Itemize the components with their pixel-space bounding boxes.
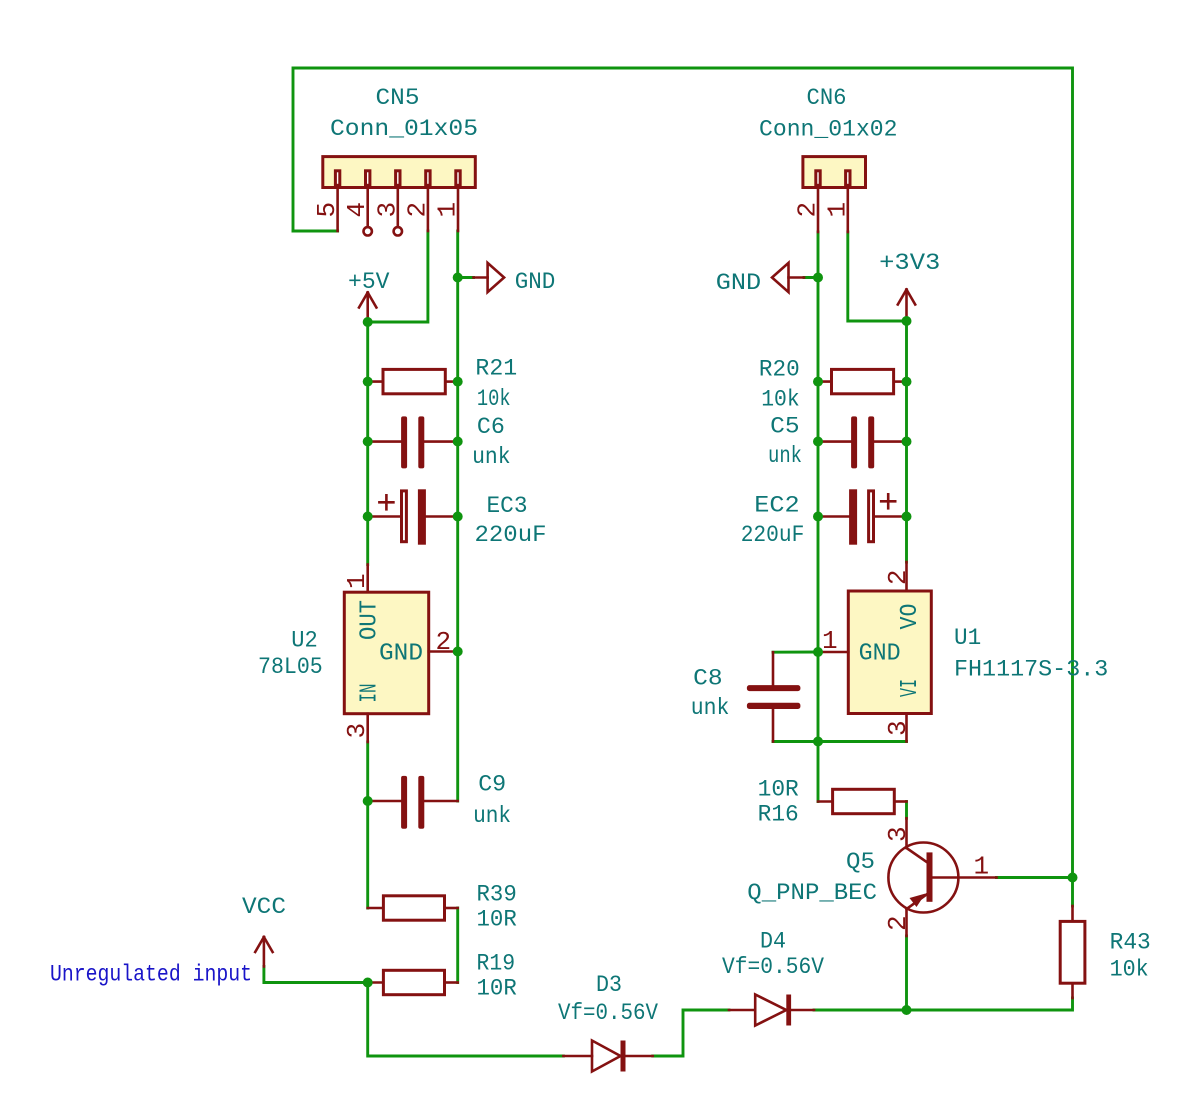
label R21 [475, 356, 517, 383]
pin name IN of U2 [357, 684, 384, 703]
label CN6 reference [807, 85, 847, 112]
svg-text:Conn_01x02: Conn_01x02 [759, 117, 898, 144]
pin 2 of U2 GND right [429, 650, 454, 653]
svg-text:10R: 10R [477, 976, 517, 1003]
power symbol GND left [474, 263, 505, 292]
junction R20 left [813, 377, 823, 387]
junction bottom D4 node [902, 1005, 912, 1015]
svg-text:Unregulated input: Unregulated input [50, 962, 252, 989]
label +3V3 [879, 250, 940, 277]
wire R43 top to Q5 base junction [1071, 878, 1074, 907]
label D3 [596, 972, 622, 999]
label CN5 value [330, 116, 478, 143]
power symbol +3V3 [898, 290, 915, 318]
pin number 3 of CN5 [372, 202, 402, 218]
pin number 1 of U1 [822, 626, 838, 656]
capacitor EC3 polarized [368, 489, 458, 544]
wire GND right stub [804, 276, 818, 279]
label GND left [515, 269, 556, 296]
label C5 [770, 414, 800, 441]
pin 1 of CN6 [846, 188, 849, 233]
pin name GND of U2 [379, 641, 423, 668]
svg-text:EC2: EC2 [754, 493, 799, 520]
svg-text:220uF: 220uF [741, 522, 805, 549]
pin number 2 of CN5 [402, 202, 432, 218]
junction GND right node [813, 273, 823, 283]
svg-text:+5V: +5V [348, 269, 390, 296]
label R20 value 10k [761, 387, 800, 414]
label EC3 value 220uF [475, 522, 547, 549]
wire D3 cathode up to D4 anode [653, 1010, 729, 1056]
pin name VI of U1 [897, 679, 924, 697]
label U2 value 78L05 [258, 654, 323, 681]
label U1 reference [954, 625, 981, 652]
junction C6 left [363, 437, 373, 447]
capacitor C8 [747, 652, 801, 741]
resistor R43 [1060, 906, 1085, 998]
pin 2 of CN5 [427, 188, 430, 232]
svg-text:R21: R21 [475, 356, 517, 383]
svg-text:220uF: 220uF [475, 522, 547, 549]
junction +5V node [363, 317, 373, 327]
pin 2 of CN6 [817, 188, 820, 233]
resistor R20 [818, 369, 907, 393]
wire +5V column [366, 322, 369, 565]
pin number 1 of CN5 [433, 202, 463, 218]
junction EC2 left [813, 512, 823, 522]
label Unregulated input [50, 962, 252, 989]
resistor R39 [368, 896, 458, 920]
junction EC3 left [363, 512, 373, 522]
pin number 2 of U2 [436, 627, 452, 657]
svg-text:10R: 10R [477, 907, 517, 934]
junction U1 pin1 [813, 647, 823, 657]
svg-text:GND: GND [379, 641, 423, 668]
pin number 3 of U1 [883, 720, 913, 736]
label D4 [760, 929, 786, 956]
svg-text:3: 3 [883, 826, 913, 842]
pin number 2 of Q5 [883, 915, 913, 931]
label +5V [348, 269, 390, 296]
svg-text:Vf=0.56V: Vf=0.56V [558, 1000, 658, 1027]
svg-text:Q_PNP_BEC: Q_PNP_BEC [747, 880, 877, 907]
pin number 1 of CN6 [822, 202, 852, 218]
junction C5 right [902, 437, 912, 447]
label R19 [477, 951, 516, 978]
wire unregulated input to R19 node [264, 967, 368, 983]
pin number 4 of CN5 [342, 202, 372, 218]
wire R19 node down and right to D3 [368, 983, 564, 1057]
pin 5 of CN5 [336, 188, 339, 232]
junction GND left node [453, 273, 463, 283]
label EC3 [487, 493, 528, 520]
svg-text:10k: 10k [1110, 957, 1149, 984]
svg-text:R19: R19 [477, 951, 516, 978]
regulator U2 body [344, 592, 428, 714]
pin name OUT of U2 [357, 600, 384, 640]
svg-text:VO: VO [897, 604, 924, 630]
svg-text:2: 2 [793, 202, 823, 218]
svg-text:VI: VI [897, 679, 924, 697]
svg-text:1: 1 [822, 626, 838, 656]
junction C5 left [813, 437, 823, 447]
svg-text:unk: unk [472, 444, 511, 471]
label R39 [477, 882, 517, 909]
wire GND left stub [458, 276, 474, 279]
pin number 3 of Q5 [883, 826, 913, 842]
svg-text:2: 2 [883, 569, 913, 585]
svg-text:C6: C6 [477, 414, 505, 441]
junction +3V3 node [902, 316, 912, 326]
label R19 value 10R [477, 976, 517, 1003]
capacitor C5 [818, 416, 907, 468]
label EC2 value 220uF [741, 522, 805, 549]
svg-text:VCC: VCC [242, 894, 286, 921]
junction R21 right [453, 377, 463, 387]
junction EC3 right [453, 512, 463, 522]
pin 3 of U1 VI bottom [905, 714, 908, 742]
pin number 1 of Q5 [974, 852, 990, 882]
wire GND column left [456, 231, 459, 801]
wire Q5 base pin to right riser [997, 876, 1073, 879]
svg-text:10R: 10R [758, 777, 799, 804]
label R20 [759, 357, 800, 384]
junction EC2 right [902, 512, 912, 522]
svg-text:GND: GND [515, 269, 556, 296]
wire C8 bottom to U1 pin3 [773, 740, 907, 743]
junction U2 pin2 [453, 647, 463, 657]
resistor R16 [818, 789, 907, 813]
junction R21 left [363, 377, 373, 387]
connector CN6 body [803, 157, 866, 188]
svg-text:+3V3: +3V3 [879, 250, 940, 277]
pin 1 of U2 OUT top [366, 565, 369, 593]
resistor R21 [368, 369, 458, 393]
svg-text:C9: C9 [478, 772, 506, 799]
power symbol GND right [772, 263, 804, 292]
svg-text:C8: C8 [693, 666, 723, 693]
svg-text:GND: GND [716, 270, 761, 297]
svg-text:unk: unk [768, 443, 802, 470]
pin 4 of CN5 unconnected [364, 188, 372, 236]
label EC2 [754, 493, 799, 520]
svg-text:Q5: Q5 [846, 849, 875, 876]
svg-text:D4: D4 [760, 929, 786, 956]
svg-text:1: 1 [342, 573, 372, 589]
wire CN5 pin5 to left riser [293, 230, 338, 233]
label R21 value 10k [477, 386, 511, 413]
svg-text:EC3: EC3 [487, 493, 528, 520]
junction Q5 base R43 node [1068, 873, 1078, 883]
pin 3 of U2 IN bottom [366, 714, 369, 742]
capacitor EC2 polarized [818, 489, 907, 544]
resistor R19 [368, 970, 458, 994]
diode D4 [729, 995, 814, 1026]
wire GND column to R16 [817, 742, 820, 802]
label C9 value unk [473, 803, 511, 830]
wire U1 pin1 to C8 top [773, 651, 818, 654]
pin 3 of CN5 unconnected [394, 188, 402, 236]
svg-text:CN6: CN6 [807, 85, 847, 112]
pin number 5 of CN5 [312, 202, 342, 218]
label C5 value unk [768, 443, 802, 470]
junction C8 bottom [813, 737, 823, 747]
svg-text:10k: 10k [761, 387, 800, 414]
wire R39 right to R19 right [456, 908, 459, 983]
svg-text:3: 3 [342, 723, 372, 739]
svg-text:R39: R39 [477, 882, 517, 909]
wire +3V3 column [905, 321, 908, 562]
power symbol +5V [359, 293, 376, 319]
wire CN6 pin1 down to +3V3 node [848, 232, 907, 321]
svg-text:10k: 10k [477, 386, 511, 413]
svg-text:2: 2 [436, 627, 452, 657]
svg-text:Conn_01x05: Conn_01x05 [330, 116, 478, 143]
svg-text:5: 5 [312, 202, 342, 218]
junction R20 right [902, 377, 912, 387]
svg-text:3: 3 [372, 202, 402, 218]
label VCC [242, 894, 286, 921]
svg-text:4: 4 [342, 202, 372, 218]
junction C6 right [453, 437, 463, 447]
svg-text:GND: GND [859, 641, 901, 668]
junction R19 left [363, 978, 373, 988]
svg-text:FH1117S-3.3: FH1117S-3.3 [954, 657, 1108, 684]
label Q5 reference [846, 849, 875, 876]
label C6 value unk [472, 444, 511, 471]
label CN5 reference [376, 85, 420, 112]
connector CN5 body [323, 157, 476, 188]
svg-text:2: 2 [883, 915, 913, 931]
pin 1 of U1 GND left [822, 651, 848, 654]
pin number 2 of U1 [883, 569, 913, 585]
junction C9 left [363, 796, 373, 806]
svg-text:78L05: 78L05 [258, 654, 323, 681]
wire Q5 emitter to bottom junction [905, 936, 908, 1010]
label R39 value 10R [477, 907, 517, 934]
svg-text:Vf=0.56V: Vf=0.56V [722, 954, 824, 981]
label R16 value 10R [758, 777, 799, 804]
label GND right [716, 270, 761, 297]
pin number 3 of U2 [342, 723, 372, 739]
label R43 value 10k [1110, 957, 1149, 984]
label Q5 value Q_PNP_BEC [747, 880, 877, 907]
svg-text:unk: unk [691, 695, 730, 722]
diode D3 [563, 1041, 652, 1072]
label D3 value Vf=0.56V [558, 1000, 658, 1027]
svg-text:U1: U1 [954, 625, 981, 652]
transistor Q5 [888, 818, 996, 936]
svg-text:R16: R16 [758, 802, 799, 829]
svg-text:C5: C5 [770, 414, 800, 441]
svg-text:D3: D3 [596, 972, 622, 999]
label R43 [1110, 930, 1151, 957]
svg-text:1: 1 [974, 852, 990, 882]
label C8 [693, 666, 723, 693]
wire U2 pin3 down to R39 [366, 742, 369, 908]
label U1 value FH1117S-3.3 [954, 657, 1108, 684]
capacitor C6 [368, 416, 458, 468]
wire CN5 pin2 down and left to +5V node [368, 231, 428, 322]
label C9 [478, 772, 506, 799]
svg-text:2: 2 [402, 202, 432, 218]
svg-text:U2: U2 [291, 628, 318, 655]
svg-text:R43: R43 [1110, 930, 1151, 957]
wire CN6 pin2 GND column right [817, 232, 820, 742]
svg-text:1: 1 [433, 202, 463, 218]
svg-text:CN5: CN5 [376, 85, 420, 112]
pin 2 of U1 VO top [905, 562, 908, 591]
label U2 reference [291, 628, 318, 655]
pin name VO of U1 [897, 604, 924, 630]
svg-text:unk: unk [473, 803, 511, 830]
pin name GND of U1 [859, 641, 901, 668]
svg-text:3: 3 [883, 720, 913, 736]
regulator U1 body [848, 591, 931, 714]
svg-text:OUT: OUT [357, 600, 384, 640]
pin number 2 of CN6 [793, 202, 823, 218]
power symbol VCC [255, 937, 272, 967]
label R16 reference [758, 802, 799, 829]
wire D4 cathode to bottom junction and to R43 bottom [814, 998, 1073, 1010]
label CN6 value [759, 117, 898, 144]
wire top border from pin5 riser across to right riser [293, 68, 1073, 878]
svg-text:IN: IN [357, 684, 384, 703]
wire R16 right to Q5 collector [905, 802, 908, 819]
label C6 [477, 414, 505, 441]
svg-text:1: 1 [822, 202, 852, 218]
label D4 value Vf=0.56V [722, 954, 824, 981]
capacitor C9 [368, 776, 458, 829]
pin 1 of CN5 [457, 188, 460, 232]
svg-text:R20: R20 [759, 357, 800, 384]
label C8 value unk [691, 695, 730, 722]
pin number 1 of U2 [342, 573, 372, 589]
